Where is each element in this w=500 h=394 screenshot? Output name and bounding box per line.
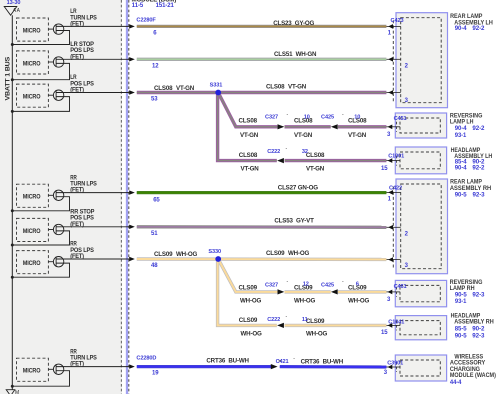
component REVERSING LAMP LH box: [395, 113, 446, 138]
harness dashed boundary: [128, 0, 130, 394]
svg-text:11: 11: [302, 317, 308, 323]
svg-text:92-2: 92-2: [472, 126, 485, 132]
bus junction: [11, 385, 14, 388]
label CLS53 GY-VT: [274, 218, 314, 225]
svg-text:15: 15: [381, 330, 388, 336]
pin 3 of C451: [386, 125, 400, 139]
wire CLS09 WH-OG to C422-3: [137, 257, 387, 261]
svg-text:C222: C222: [267, 317, 280, 323]
svg-text:CRT36: CRT36: [301, 359, 320, 366]
wire FET source loop to bus: [12, 263, 69, 277]
svg-text:LAMP RH: LAMP RH: [450, 285, 475, 292]
BCM dashed right boundary: [120, 0, 122, 394]
inline connector C222 (bottom): [267, 314, 287, 328]
labels CLS09/WH-OG on branch to C461: [239, 284, 262, 304]
svg-text:ASSEMBLY RH: ASSEMBLY RH: [450, 185, 491, 192]
svg-text:19: 19: [152, 371, 159, 377]
BCM driver RR TURN LPS micro+FET U4: [17, 184, 135, 207]
svg-text:C425: C425: [321, 282, 334, 288]
component REVERSING LAMP RH box: [395, 280, 446, 306]
svg-text:12: 12: [152, 63, 159, 69]
inline connector C327 (bottom): [265, 279, 289, 294]
BCM module gray background: [0, 0, 123, 394]
splice S331: [215, 90, 221, 96]
wire CLS08 C425 to C451-3: [338, 125, 386, 128]
label LR STOP POS LPS (FET): [70, 41, 94, 60]
svg-text:(FET): (FET): [70, 253, 84, 260]
BCM driver LR POS LPS micro+FET U3: [17, 84, 135, 107]
svg-text:65: 65: [153, 198, 160, 204]
svg-text:48: 48: [151, 263, 158, 269]
svg-text:WH-OG: WH-OG: [348, 297, 369, 304]
svg-text:C422: C422: [389, 186, 402, 192]
svg-text:6: 6: [356, 282, 359, 288]
label RR TURN LPS (FET): [70, 348, 96, 367]
svg-text:VT-GN: VT-GN: [288, 84, 307, 91]
svg-text:92-2: 92-2: [472, 26, 485, 32]
bus junction: [11, 110, 14, 113]
splice S330: [215, 256, 221, 262]
bus junction: [11, 244, 14, 247]
svg-text:90-5: 90-5: [455, 333, 467, 339]
svg-text:90-4: 90-4: [455, 26, 467, 32]
svg-text:GN-OG: GN-OG: [298, 184, 318, 191]
label CLS27 GN-OG: [278, 184, 318, 191]
svg-text:C3901: C3901: [387, 360, 403, 366]
svg-text:CLS27: CLS27: [278, 184, 297, 191]
label CLS09 WH-OG (left): [154, 251, 197, 258]
BCM driver RR TURN LPS micro+FET U7: [17, 358, 135, 381]
pin 1 of C423: [387, 24, 401, 36]
component HEADLAMP ASSEMBLY RH box: [395, 316, 446, 340]
svg-text:CRT36: CRT36: [206, 358, 225, 365]
labels CLS08/VT-GN on branch to C1001: [239, 152, 259, 173]
svg-text:GY-OG: GY-OG: [295, 20, 315, 27]
svg-text:44-4: 44-4: [450, 380, 462, 386]
svg-text:VT-GN: VT-GN: [240, 132, 259, 139]
bottom power triangle M: [6, 390, 15, 394]
component REAR LAMP ASSEMBLY RH box: [393, 179, 447, 274]
component HEADLAMP ASSEMBLY LH box: [395, 147, 446, 174]
label REAR LAMP ASSEMBLY RH: [450, 179, 491, 199]
power source triangle A: [4, 7, 17, 16]
label CLS51 WH-GN: [274, 51, 317, 58]
svg-text:CLS08: CLS08: [239, 152, 258, 159]
pin 15 of C1041: [381, 323, 400, 336]
svg-text:WH-OG: WH-OG: [306, 331, 327, 338]
wire CLS09 branch to C222: [218, 259, 277, 325]
BCM driver LR STOP POS LPS micro+FET U2: [17, 51, 135, 74]
inline connector C421 (wire CRT36): [271, 356, 295, 369]
label CLS08 VT-GN (left): [154, 85, 195, 92]
svg-text:M: M: [15, 390, 19, 394]
pin 2 of C423: [387, 57, 409, 70]
labels CLS08/VT-GN on branch to C451: [239, 117, 259, 138]
label CRT36 BU-WH (right): [301, 359, 344, 366]
label RR STOP POS LPS (FET): [70, 209, 94, 228]
svg-text:C451: C451: [394, 116, 407, 122]
svg-text:C327: C327: [265, 282, 278, 288]
svg-text:90-5: 90-5: [455, 193, 467, 199]
svg-text:(FET): (FET): [70, 20, 84, 27]
svg-text:93-1: 93-1: [455, 299, 467, 305]
inline connector C327 (top): [265, 112, 289, 130]
wire CLS09 C425 to C461-3: [338, 290, 386, 293]
svg-text:15: 15: [381, 166, 388, 172]
bus junction: [11, 276, 14, 279]
svg-text:BU-WH: BU-WH: [323, 359, 344, 366]
svg-text:WH-OG: WH-OG: [176, 251, 197, 258]
wire CLS51 WH-GN to C423-2: [137, 58, 387, 61]
svg-text:92-2: 92-2: [472, 166, 485, 172]
label RR POS LPS (FET): [70, 241, 94, 260]
pin 15 of C1001: [381, 158, 400, 172]
wire FET source loop to bus: [12, 63, 69, 79]
wire CLS09 C327 to C425: [285, 290, 331, 293]
svg-text:12: 12: [303, 282, 309, 288]
component WIRELESS ACCESSORY CHARGING MODULE (WACM) box: [395, 355, 446, 381]
svg-text:C461: C461: [394, 284, 407, 290]
svg-text:11-5: 11-5: [132, 3, 144, 9]
svg-text:CLS08: CLS08: [306, 152, 325, 159]
svg-text:CLS08: CLS08: [154, 85, 173, 92]
svg-text:CLS08: CLS08: [239, 117, 258, 124]
wire FET source loop to bus: [12, 197, 69, 211]
svg-text:C2280D: C2280D: [136, 355, 156, 361]
svg-text:C2280F: C2280F: [136, 18, 156, 24]
svg-text:92-3: 92-3: [473, 193, 486, 199]
label CRT36 BU-WH (left): [206, 358, 249, 365]
labels CLS09/WH-OG on branch to C1041: [239, 317, 262, 337]
svg-text:VT-GN: VT-GN: [176, 85, 195, 92]
label REVERSING LAMP RH: [450, 279, 486, 305]
svg-text:ASSEMBLY RH: ASSEMBLY RH: [454, 319, 494, 326]
svg-text:CLS09: CLS09: [306, 318, 325, 325]
svg-text:CLS23: CLS23: [273, 20, 292, 27]
label CLS08 VT-GN (right of S331): [266, 84, 307, 91]
label REVERSING LAMP LH: [450, 113, 485, 139]
svg-text:LAMP LH: LAMP LH: [450, 119, 474, 126]
label REAR LAMP ASSEMBLY LH: [450, 13, 493, 32]
BCM driver RR POS LPS micro+FET U6: [17, 251, 135, 274]
inline connector C425 (bottom): [321, 279, 344, 294]
svg-text:10: 10: [304, 115, 310, 121]
connector C2280 blue vertical line: [126, 0, 128, 394]
svg-text:90-2: 90-2: [472, 327, 485, 333]
svg-text:(FET): (FET): [70, 87, 84, 94]
svg-text:90-4: 90-4: [455, 126, 467, 132]
svg-text:(FET): (FET): [70, 187, 84, 194]
svg-text:C1001: C1001: [388, 153, 404, 159]
wire CLS09 C222 to C1041-15: [285, 324, 387, 327]
svg-text:151-21: 151-21: [156, 3, 175, 9]
pin 1 of C422: [387, 190, 401, 203]
svg-text:92-3: 92-3: [472, 333, 485, 339]
svg-text:92-3: 92-3: [472, 292, 485, 298]
svg-text:C423: C423: [391, 18, 404, 24]
component REAR LAMP ASSEMBLY LH box: [393, 13, 447, 108]
svg-text:CLS51: CLS51: [274, 51, 293, 58]
svg-text:WH-OG: WH-OG: [240, 297, 261, 304]
svg-text:VT-GN: VT-GN: [306, 166, 325, 173]
label LR TURN LPS (FET): [70, 8, 96, 27]
svg-text:(FET): (FET): [70, 221, 84, 228]
label WIRELESS ACCESSORY CHARGING MODULE (WACM): [450, 353, 496, 385]
inline connector C425 (top): [321, 112, 344, 130]
wire CLS23 GY-OG to C423-1: [137, 25, 387, 28]
svg-text:VT-GN: VT-GN: [241, 166, 260, 173]
svg-text:(FET): (FET): [70, 361, 84, 368]
svg-text:CLS09: CLS09: [239, 284, 258, 291]
svg-text:WH-GN: WH-GN: [296, 51, 317, 58]
wire FET source loop to bus: [12, 371, 69, 387]
wire FET source loop to bus: [12, 97, 69, 112]
svg-text:C222: C222: [267, 149, 280, 155]
wire CLS08 C222 to C1001-15: [285, 159, 387, 162]
bus junction: [11, 78, 14, 81]
wire CLS08 VT-GN to C423-3: [137, 91, 387, 94]
pin 3 of C461: [386, 290, 400, 304]
svg-text:WH-OG: WH-OG: [241, 331, 262, 338]
svg-text:S331: S331: [210, 82, 223, 88]
svg-text:MODULE (WACM): MODULE (WACM): [450, 372, 496, 379]
svg-text:93-1: 93-1: [455, 133, 467, 139]
wire CRT36 BU-WH C421 to C3901-3: [280, 365, 387, 369]
BCM driver RR STOP POS LPS micro+FET U5: [17, 218, 135, 241]
inline connector C222 (top): [267, 146, 287, 163]
label HEADLAMP ASSEMBLY RH: [451, 312, 494, 339]
svg-text:C421: C421: [276, 359, 289, 365]
svg-text:C425: C425: [321, 115, 334, 121]
svg-text:C327: C327: [265, 115, 278, 121]
svg-text:VBATT 1 BUS: VBATT 1 BUS: [4, 57, 11, 101]
pin 3 of C422: [387, 257, 409, 269]
wire FET source loop to bus: [12, 231, 69, 245]
wire FET source loop to bus: [12, 31, 69, 45]
wire CLS08 branch to C327: [218, 93, 277, 127]
label RR TURN LPS (FET): [70, 174, 96, 193]
svg-text:S330: S330: [208, 249, 221, 255]
svg-text:85-5: 85-5: [455, 327, 467, 333]
label CLS09 WH-OG (right of S330): [266, 250, 309, 257]
svg-text:CLS09: CLS09: [239, 317, 258, 324]
pin 2 of C422: [387, 225, 409, 238]
svg-text:CLS08: CLS08: [266, 84, 285, 91]
pin 3 of C3901: [384, 365, 400, 377]
label LR POS LPS (FET): [70, 74, 94, 93]
bus junction: [11, 43, 14, 46]
bus junction: [11, 209, 14, 212]
wire CLS08 C327 to C425: [285, 125, 331, 128]
svg-text:CLS09: CLS09: [266, 250, 285, 257]
svg-text:VT-GN: VT-GN: [348, 132, 367, 139]
svg-text:90-5: 90-5: [455, 292, 467, 298]
label CLS23 GY-OG: [273, 20, 314, 27]
svg-text:32: 32: [302, 149, 308, 155]
wire CLS09 branch to C327: [218, 259, 277, 292]
svg-text:CLS53: CLS53: [274, 218, 293, 225]
svg-text:BU-WH: BU-WH: [228, 358, 249, 365]
svg-text:90-4: 90-4: [455, 166, 467, 172]
wire CLS27 GN-OG to C422-1: [137, 191, 387, 194]
svg-text:13-30: 13-30: [7, 0, 21, 6]
wire CLS53 GY-VT to C422-2: [137, 225, 387, 229]
VBATT bus wire: [11, 15, 13, 389]
svg-text:VT-GN: VT-GN: [294, 132, 313, 139]
wire CLS08 branch to C222: [218, 93, 277, 161]
svg-text:WH-OG: WH-OG: [288, 250, 309, 257]
svg-text:GY-VT: GY-VT: [296, 218, 314, 225]
pin 3 of C423: [387, 90, 409, 104]
svg-text:51: 51: [151, 231, 158, 237]
wire CRT36 BU-WH to C421: [137, 365, 271, 368]
label HEADLAMP ASSEMBLY LH: [451, 147, 493, 172]
svg-text:10: 10: [354, 115, 360, 121]
BCM driver LR TURN LPS micro+FET U1: [17, 18, 135, 41]
svg-text:CLS09: CLS09: [154, 251, 173, 258]
svg-text:(FET): (FET): [70, 53, 84, 60]
svg-text:53: 53: [151, 97, 158, 103]
svg-text:WH-OG: WH-OG: [294, 297, 315, 304]
